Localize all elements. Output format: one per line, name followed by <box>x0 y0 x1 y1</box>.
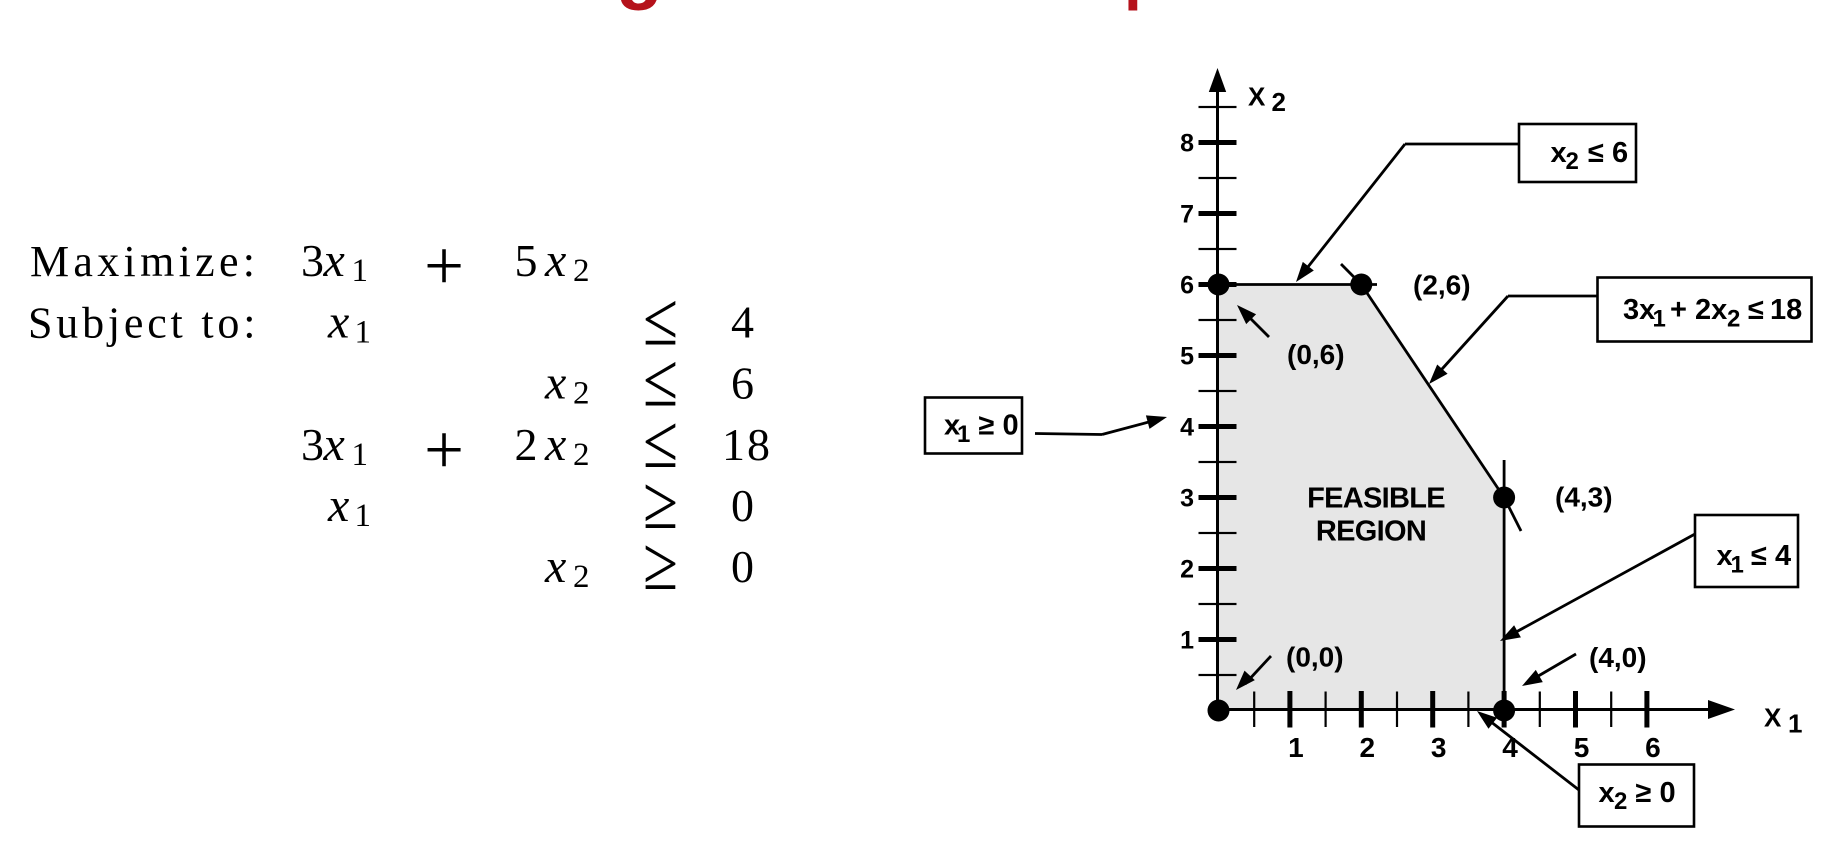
connector arrow for 3x1 + 2x2 <= 18 <box>1429 296 1597 384</box>
svg-text:≤ 6: ≤ 6 <box>1588 137 1628 169</box>
connector arrow for x2 >= 0 <box>1477 711 1579 790</box>
svg-text:Subject to:: Subject to: <box>28 299 259 348</box>
y-axis minor ticks <box>1199 106 1237 676</box>
vertex dot (0,6) <box>1208 274 1230 296</box>
svg-text:6: 6 <box>1180 272 1194 300</box>
svg-text:5: 5 <box>1574 732 1590 763</box>
constraint box x2 >= 0 <box>1579 765 1694 827</box>
svg-text:x: x <box>327 479 349 532</box>
arrow to vertex (0,6) <box>1237 305 1269 337</box>
svg-text:x: x <box>323 418 345 471</box>
feasible region polygon <box>1219 285 1505 711</box>
connector arrow for x1 <= 4 <box>1500 534 1695 641</box>
svg-text:Maximize:: Maximize: <box>30 237 259 286</box>
svg-text:x: x <box>544 418 566 471</box>
x-axis tick labels 1-6 <box>1288 732 1661 763</box>
svg-text:x: x <box>323 234 345 287</box>
svg-text:(0,0): (0,0) <box>1286 642 1344 673</box>
arrow to vertex (0,0) <box>1236 656 1271 690</box>
constraint box 3x1 + 2x2 <= 18 <box>1598 278 1812 342</box>
svg-text:2: 2 <box>1360 732 1376 763</box>
svg-text:2: 2 <box>1727 306 1740 333</box>
svg-text:2: 2 <box>573 437 590 473</box>
svg-text:g: g <box>616 0 663 11</box>
svg-text:1: 1 <box>352 253 369 289</box>
svg-text:x: x <box>544 540 566 593</box>
connector arrow for x1 >= 0 <box>1035 415 1167 434</box>
svg-text:≥: ≥ <box>643 522 678 606</box>
svg-text:≤ 4: ≤ 4 <box>1751 540 1791 572</box>
svg-text:7: 7 <box>1180 201 1194 229</box>
constraint line 3x1+2x2=18 <box>1341 264 1521 531</box>
svg-text:X: X <box>1764 703 1782 733</box>
vertex dot (0,0) <box>1208 700 1230 722</box>
svg-text:3: 3 <box>301 235 324 286</box>
svg-text:FEASIBLE: FEASIBLE <box>1307 483 1445 515</box>
svg-text:3: 3 <box>301 419 324 470</box>
svg-text:1: 1 <box>352 437 369 473</box>
constraint line x2=6 <box>1217 283 1377 286</box>
svg-text:x: x <box>544 357 566 410</box>
svg-text:6: 6 <box>1645 732 1661 763</box>
svg-text:x: x <box>1599 777 1615 809</box>
svg-text:≤: ≤ <box>1748 294 1764 326</box>
x-axis <box>1217 708 1710 711</box>
svg-text:2: 2 <box>515 419 538 470</box>
svg-text:(0,6): (0,6) <box>1287 339 1345 370</box>
constraint box x1 >= 0 <box>925 398 1022 454</box>
svg-text:0: 0 <box>731 541 754 592</box>
svg-text:(4,0): (4,0) <box>1589 642 1647 673</box>
svg-text:2: 2 <box>573 253 590 289</box>
constraint line x1=4 <box>1503 460 1506 710</box>
svg-text:≥ 0: ≥ 0 <box>1636 777 1676 809</box>
x-axis major ticks <box>1287 691 1649 728</box>
svg-text:(4,3): (4,3) <box>1555 482 1613 513</box>
svg-text:2: 2 <box>573 376 590 412</box>
svg-text:2: 2 <box>1614 788 1627 815</box>
svg-text:+: + <box>424 412 464 490</box>
svg-text:1: 1 <box>1180 627 1194 655</box>
y-axis title X2 <box>1248 82 1286 118</box>
svg-text:+: + <box>424 228 464 306</box>
x-axis minor ticks <box>1253 692 1612 728</box>
svg-text:4: 4 <box>731 297 754 348</box>
y-axis arrowhead <box>1209 68 1226 92</box>
svg-text:1: 1 <box>355 315 372 351</box>
svg-text:18: 18 <box>1770 294 1802 326</box>
x-axis arrowhead <box>1708 700 1735 719</box>
math row 4: 3x1 + 2x2 <= 18 <box>301 400 772 490</box>
svg-text:x: x <box>327 296 349 349</box>
svg-text:≥ 0: ≥ 0 <box>979 410 1019 442</box>
svg-text:X: X <box>1248 82 1266 112</box>
svg-text:6: 6 <box>731 358 754 409</box>
constraint box x2 <= 6 <box>1519 124 1636 182</box>
connector arrow for x2 <= 6 <box>1296 144 1520 282</box>
y-axis major ticks <box>1199 140 1237 642</box>
math row 5: x1 >= 0 <box>327 461 754 545</box>
math row 3: x2 <= 6 <box>544 338 754 422</box>
svg-text:0: 0 <box>731 480 754 531</box>
vertex dot (4,3) <box>1493 487 1515 509</box>
svg-text:3x: 3x <box>1623 294 1655 326</box>
y-axis tick labels 1-8 <box>1180 130 1194 655</box>
svg-text:1: 1 <box>1731 552 1744 579</box>
svg-text:2: 2 <box>573 559 590 595</box>
svg-text:3: 3 <box>1180 485 1194 513</box>
constraint box x1 <= 4 <box>1695 515 1798 587</box>
x-axis title X1 <box>1764 703 1802 739</box>
svg-text:18: 18 <box>722 419 772 470</box>
svg-text:1: 1 <box>1653 306 1666 333</box>
svg-text:1: 1 <box>957 421 970 448</box>
svg-text:2: 2 <box>1566 148 1579 175</box>
svg-text:REGION: REGION <box>1316 516 1426 548</box>
FEASIBLE REGION label <box>1307 483 1445 548</box>
arrow to vertex (4,0) <box>1522 654 1576 686</box>
y-axis <box>1216 80 1219 712</box>
svg-text:8: 8 <box>1180 130 1194 158</box>
svg-text:x: x <box>544 234 566 287</box>
svg-text:2: 2 <box>1180 556 1194 584</box>
svg-text:2: 2 <box>1272 87 1286 117</box>
svg-text:+ 2x: + 2x <box>1670 294 1727 326</box>
vertex dot (4,0) <box>1493 700 1515 722</box>
svg-text:p: p <box>1124 0 1163 11</box>
svg-text:x: x <box>1551 137 1567 169</box>
svg-text:4: 4 <box>1180 414 1194 442</box>
svg-text:(2,6): (2,6) <box>1413 270 1471 301</box>
svg-text:1: 1 <box>1788 709 1802 739</box>
svg-text:5: 5 <box>515 235 538 286</box>
math row 1: Maximize: 3x1 + 5x2 <box>30 228 590 306</box>
svg-text:1: 1 <box>355 498 372 534</box>
math row 6: x2 >= 0 <box>544 522 754 606</box>
svg-text:1: 1 <box>1288 732 1304 763</box>
svg-text:5: 5 <box>1180 343 1194 371</box>
svg-text:3: 3 <box>1431 732 1447 763</box>
math row 2: Subject to: x1 <= 4 <box>28 277 754 361</box>
vertex dot (2,6) <box>1350 274 1372 296</box>
